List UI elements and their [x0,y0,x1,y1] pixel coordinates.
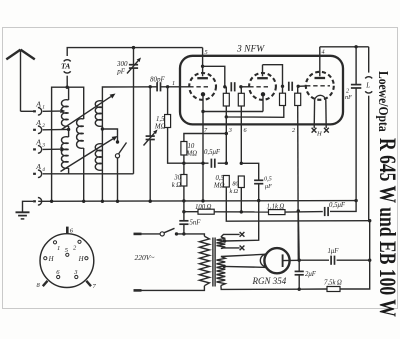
wire A2 to coil tap [43,128,69,130]
tube U3 grid [306,85,330,87]
resistor 30k [172,163,187,201]
resistor 80k [230,176,245,212]
node grid rail tuning [149,85,152,88]
RGN354 anode [283,254,300,267]
wire B plus [184,211,198,213]
node return top [368,219,371,222]
speaker jack L [365,47,372,221]
tube U1 cathode [201,92,205,111]
svg-text:R 645 W und EB 100 W: R 645 W und EB 100 W [374,138,399,317]
socket pin 3b [73,269,78,279]
terminal x heater bottom [240,246,245,251]
tube U1 anode [197,66,208,78]
tube U2 cathode [261,92,265,111]
node bias left [182,162,185,165]
wire bias node [184,162,209,164]
capacitor coupling2 [289,82,292,91]
socket key pin 6 [67,227,74,235]
svg-text:220V~: 220V~ [135,253,155,262]
svg-text:μF: μF [265,183,272,190]
node 5nF switch [182,232,185,235]
node bias pin3 [225,162,228,165]
wire switch riser [102,129,117,141]
wire ground rail [38,200,356,203]
tube U1 triode [189,73,216,100]
node rail a [50,200,53,203]
node TA coil junction [66,86,69,89]
socket pin H left [44,256,55,263]
svg-text:100 Ω: 100 Ω [195,204,212,211]
capacitor 1uF [328,248,340,265]
wire switch to primary [177,234,205,236]
node bias pin7 [201,162,204,165]
jack A2 [33,118,45,134]
socket pin H right [78,256,88,263]
node 10M jog [225,132,228,135]
pin 7 wire [203,112,208,201]
terminal 220V bottom [134,289,142,292]
svg-text:L: L [365,83,370,90]
wire anode2 jog [263,65,283,87]
capacitor 0.5uF b [254,176,272,201]
wire cathode tie [203,111,263,113]
capacitor 2nF [345,47,361,201]
tube RGN354 [264,248,289,273]
resistor 100 [195,204,214,214]
svg-text:1,5: 1,5 [156,116,165,123]
wire B minus [299,288,327,290]
wire grid rail to tube [161,80,189,87]
resistor R2 coupling [238,87,244,106]
wire switch to rail [117,158,119,201]
tube envelope 3NFW [180,56,343,125]
coil L2 middle [77,119,84,149]
RGN354 filament [260,254,266,267]
node coupling2 right [297,85,300,88]
svg-text:2: 2 [73,245,77,252]
tube U3 filament [315,95,326,100]
switch wave change [115,143,126,158]
wire HV CT to RGN [224,266,266,267]
jack A1 [33,100,45,116]
wire L1 bottom [68,168,70,174]
node 2uF bottom [298,288,301,291]
node B rail end [354,199,357,202]
coil L1 upper [61,87,68,126]
capacitor 300pF variable [116,48,141,174]
terminal 220V top [134,233,142,236]
node B plus main [298,259,301,262]
terminal x heater top [240,232,245,237]
svg-text:7,5k Ω: 7,5k Ω [324,280,342,287]
wire 0.5uF b jog [241,163,258,180]
jack A3 [33,138,45,154]
svg-text:4: 4 [322,49,325,56]
svg-text:1: 1 [42,105,45,111]
resistor R1 coupling [223,87,229,106]
wire to mains switch [142,233,161,235]
wire A3 tap arrow [43,147,66,151]
wire 30k below rail [183,201,185,221]
resistor 10M [181,142,197,158]
svg-text:H: H [48,256,55,263]
capacitor 80pF [150,76,166,92]
wire mains bottom [142,286,205,291]
node 30k rail [182,199,185,202]
tube U3 anode [315,47,326,78]
resistor 1.5M [154,87,184,163]
wire to U2 grid [241,86,249,88]
svg-text:MΩ: MΩ [154,124,166,131]
svg-text:5nF: 5nF [190,220,202,227]
switch mains [160,228,174,236]
terminal x H right [324,128,329,133]
wire bias return [226,201,369,222]
tube U2 anode [257,65,268,79]
node rail e [149,200,152,203]
node coupling1 right [239,85,242,88]
svg-text:A: A [35,162,41,171]
title Loewe Opta [374,71,399,317]
pin 6 wire [241,106,247,163]
capacitor 0.5uF a [204,149,221,168]
coil L3 lower [95,144,102,171]
wire B plus mid [214,211,268,213]
wire A4 line [43,173,134,175]
svg-text:3: 3 [228,127,232,134]
wire coil L3 top [102,87,157,202]
wire pin2 to Bplus [297,211,300,260]
svg-text:1,1k Ω: 1,1k Ω [267,204,285,211]
wire HV bottom [221,286,299,290]
svg-text:2μF: 2μF [305,271,317,278]
wire L2 bottom [83,148,85,201]
svg-text:H: H [78,256,85,263]
transformer core [213,238,215,287]
svg-text:6: 6 [244,127,248,134]
wire 10M jog [184,134,226,142]
svg-text:A: A [35,118,41,127]
resistor R3 coupling [280,86,286,105]
svg-text:2: 2 [292,127,295,134]
wire heater CT [225,201,259,241]
variometer arrow upper [62,94,116,130]
wire TA to coil box [66,76,68,87]
capacitor 2uF [295,260,317,289]
node coupling2 left [281,85,284,88]
node top rail 300pF [132,46,135,49]
wire top rail right [320,46,369,48]
node 2nF top [354,45,357,48]
tube U2 triode [249,73,276,100]
tube U2 grid [249,86,269,88]
wire B plus right [285,211,323,214]
transformer HV winding [217,257,226,286]
svg-text:30: 30 [173,175,181,182]
socket circle [40,234,94,288]
svg-text:0,5: 0,5 [264,176,272,183]
tube U3 triode [306,72,334,100]
node switch contact [175,232,178,235]
svg-text:0,5μF: 0,5μF [329,202,346,209]
label 220V [135,253,155,262]
node pin7 rail [201,199,204,202]
svg-text:6: 6 [70,228,74,235]
label H [316,131,322,138]
svg-text:H: H [316,131,322,138]
label RGN 354 [252,276,287,286]
node 80k jog [240,162,243,165]
wire B minus right [340,221,370,289]
resistor 0.5M [213,175,229,201]
wire jack to ground [23,201,34,212]
wire HV top to RGN [221,254,267,256]
svg-text:3: 3 [73,269,78,276]
svg-text:7: 7 [204,127,208,134]
node coil L3 tap [101,127,104,130]
svg-text:6: 6 [56,269,60,276]
terminal x H left [312,128,317,133]
svg-text:1: 1 [172,80,175,87]
socket stub 7 [86,281,96,290]
wire A1 tap arrow [43,109,66,113]
label 3 NFW [236,45,265,55]
svg-text:3 NFW: 3 NFW [236,45,265,55]
pin 5 [203,48,208,67]
socket pin 1 [53,241,60,252]
svg-text:7: 7 [93,283,97,290]
node coupling1 left [223,85,226,88]
capacitor tuning variable [144,87,158,202]
wire top rail left [67,48,202,56]
svg-text:RGN 354: RGN 354 [252,276,287,286]
wire anode1 jog [203,66,225,87]
svg-text:1μF: 1μF [328,248,340,255]
svg-text:5: 5 [205,49,208,56]
resistor 1.1k [267,204,286,215]
node B plus left [182,210,185,213]
svg-text:A: A [35,138,41,147]
socket pin 5 [65,247,69,256]
capacitor 0.5uF c [325,202,346,216]
node rail d [116,200,119,203]
svg-text:80: 80 [232,181,239,188]
wire antenna to A1 jack [21,110,34,112]
wire cap to pin3 [218,162,227,164]
coil L3 upper [95,101,102,127]
node 0.5uF b rail [257,199,260,202]
transformer primary [199,236,209,286]
svg-text:nF: nF [345,94,352,101]
svg-text:k Ω: k Ω [172,182,181,189]
capacitor 5nF [179,220,201,234]
node anode1 branch [201,65,204,68]
node coil L1 center tap [67,128,70,131]
svg-text:0,5μF: 0,5μF [204,149,221,156]
node cathode tie [201,110,204,113]
ground [16,212,30,219]
wire 1uF right [337,259,370,261]
svg-text:Loewe/Opta: Loewe/Opta [376,71,391,132]
antenna symbol [6,50,35,112]
variometer arrow lower [61,136,118,172]
svg-text:MΩ: MΩ [213,183,225,190]
node switch top [116,140,119,143]
wire L1 mid [68,126,70,137]
node heater CT [223,239,226,242]
socket stub 8 [37,281,48,289]
svg-text:TA: TA [61,61,70,70]
wire to U3 grid [298,85,306,87]
wire 10M bottom [183,155,185,163]
svg-text:k Ω: k Ω [230,188,239,195]
transformer heater winding [217,234,240,248]
svg-text:1: 1 [57,245,60,252]
node speaker return [368,259,371,262]
node pin6 B plus [240,210,243,213]
node HV CT [223,265,226,268]
socket pin 6b [56,269,60,279]
svg-text:4: 4 [42,167,45,173]
node R tie [225,115,228,118]
svg-text:8: 8 [37,282,41,289]
svg-text:A: A [35,100,41,109]
node pin2 B plus [297,209,300,212]
svg-text:3: 3 [41,143,45,149]
jack A4 [33,162,45,178]
resistor 7.5k [324,280,342,292]
svg-text:pF: pF [116,68,126,76]
svg-text:2: 2 [42,123,45,129]
pin H wires [314,100,326,128]
wire coil box top rail [52,87,84,201]
connector TA [61,60,71,73]
resistor R4 coupling [295,86,301,105]
svg-text:MΩ: MΩ [186,151,198,158]
svg-text:10: 10 [188,143,195,150]
node rail c [101,200,104,203]
wire R tie [226,106,283,118]
svg-text:0,5: 0,5 [216,175,225,182]
pin 3 wire [226,117,232,163]
wire B plus out [299,259,329,261]
pin 2 wire [292,106,298,261]
tube U1 grid [189,86,209,88]
node rail b [82,200,85,203]
coil L1 lower [61,137,68,169]
svg-text:80pF: 80pF [150,76,166,84]
capacitor coupling1 [231,82,234,91]
socket pin 2 [73,240,81,251]
node 80pF right [166,85,169,88]
jack ground [33,198,42,206]
wire 0.5uF c riser [330,201,356,212]
